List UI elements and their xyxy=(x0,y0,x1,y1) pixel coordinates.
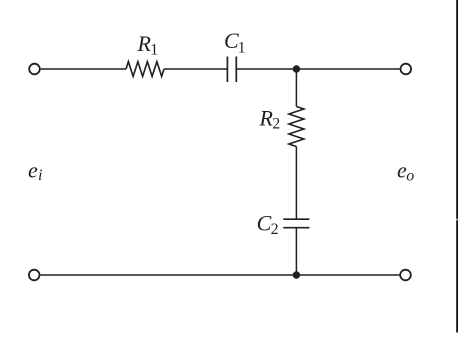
svg-text:2: 2 xyxy=(271,221,279,238)
svg-text:1: 1 xyxy=(150,42,158,59)
svg-text:R: R xyxy=(137,31,152,56)
svg-text:R: R xyxy=(259,106,274,131)
svg-text:e: e xyxy=(28,157,38,182)
svg-text:o: o xyxy=(406,168,414,185)
svg-text:2: 2 xyxy=(272,116,280,133)
svg-text:1: 1 xyxy=(238,39,246,56)
svg-text:C: C xyxy=(257,211,272,236)
svg-text:i: i xyxy=(38,167,42,184)
